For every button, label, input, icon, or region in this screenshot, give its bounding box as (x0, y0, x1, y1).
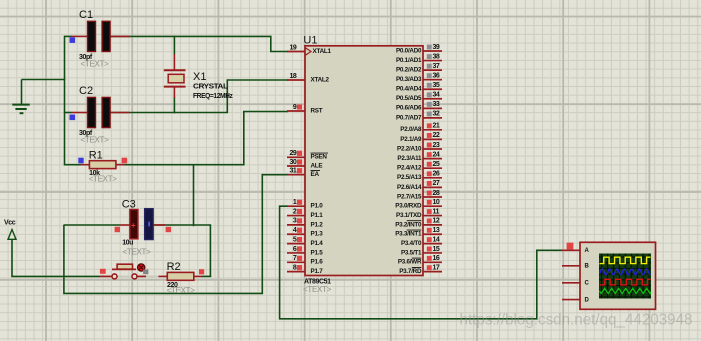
svg-text:33: 33 (433, 101, 440, 108)
pin 22 P2.1/A9 (400, 132, 442, 143)
wire C2 left link (65, 112, 72, 114)
svg-text:C1: C1 (79, 9, 93, 21)
svg-text:P3.5/T1: P3.5/T1 (401, 249, 422, 256)
wire C1 to XTAL1 (110, 36, 289, 51)
pin 5 P1.4 (287, 236, 323, 247)
svg-text:P2.3/A11: P2.3/A11 (397, 155, 422, 162)
svg-text:<TEXT>: <TEXT> (123, 248, 152, 257)
svg-text:XTAL2: XTAL2 (311, 76, 330, 83)
svg-text:P1.2: P1.2 (311, 221, 324, 228)
svg-text:RST: RST (311, 107, 323, 114)
svg-text:31: 31 (290, 168, 297, 175)
capacitor C2 (72, 85, 130, 144)
op-amp U1 body (AT89C51 MCU) (303, 35, 423, 295)
svg-text:30: 30 (290, 159, 297, 166)
pin 1 P1.0 (287, 199, 323, 210)
node R2 right marker (199, 269, 204, 274)
svg-text:FREQ=12MHz: FREQ=12MHz (193, 93, 233, 100)
pin 4 P1.3 (287, 227, 323, 238)
oscilloscope screen (599, 254, 651, 299)
svg-text:P1.0: P1.0 (311, 203, 324, 210)
svg-text:36: 36 (433, 72, 440, 79)
svg-text:3: 3 (293, 218, 297, 225)
svg-text:12: 12 (433, 218, 440, 225)
svg-text:27: 27 (433, 180, 440, 187)
svg-text:<TEXT>: <TEXT> (303, 285, 332, 294)
svg-text:18: 18 (290, 73, 297, 80)
svg-text:P0.5/AD5: P0.5/AD5 (396, 95, 422, 102)
svg-text:X1: X1 (193, 71, 206, 83)
svg-text:P3.3/INT1: P3.3/INT1 (395, 231, 422, 238)
pin scope D (562, 299, 580, 301)
pin 38 P0.1/AD1 (396, 53, 442, 64)
svg-text:C2: C2 (79, 85, 93, 97)
svg-text:P2.2/A10: P2.2/A10 (397, 145, 422, 152)
pin 24 P2.3/A11 (397, 151, 442, 162)
svg-text:7: 7 (293, 255, 297, 262)
svg-text:13: 13 (433, 227, 440, 234)
svg-text:C: C (585, 281, 590, 287)
pin 7 P1.6 (287, 255, 323, 266)
wire C3 right down to R2 (154, 225, 211, 277)
pin 34 P0.5/AD5 (396, 92, 442, 103)
pin 16 P3.6/WR (398, 255, 442, 266)
pin 19 XTAL1 (287, 44, 331, 55)
waveform D green triangle (600, 288, 651, 293)
pin 23 P2.2/A10 (397, 142, 442, 153)
waveform A yellow square (600, 257, 651, 263)
svg-text:<TEXT>: <TEXT> (81, 59, 110, 68)
wire R1 to RST (116, 112, 288, 165)
svg-text:1: 1 (293, 199, 297, 206)
pin 2 P1.1 (287, 208, 323, 219)
wire P1.0 to scope A (280, 206, 562, 319)
node R1 right marker (122, 158, 128, 164)
pin 8 P1.7 (287, 264, 323, 275)
pin 6 P1.5 (287, 246, 323, 257)
svg-text:17: 17 (433, 264, 440, 271)
svg-text:R2: R2 (167, 261, 181, 273)
svg-text:B: B (585, 264, 590, 270)
svg-text:P1.5: P1.5 (311, 249, 324, 256)
pin 14 P3.4/T0 (401, 236, 442, 247)
svg-text:EA: EA (311, 171, 320, 178)
wire crystal bottom link (173, 97, 175, 113)
svg-text:Vcc: Vcc (4, 220, 16, 227)
svg-text:P2.6/A14: P2.6/A14 (397, 184, 422, 191)
svg-text:ALE: ALE (311, 162, 323, 169)
svg-text:+: + (131, 220, 136, 230)
svg-text:21: 21 (433, 123, 440, 130)
svg-text:15: 15 (433, 246, 440, 253)
pin 27 P2.6/A14 (397, 180, 442, 191)
svg-text:8: 8 (293, 264, 297, 271)
node scope A marker (567, 243, 574, 250)
svg-text:P0.2/AD2: P0.2/AD2 (396, 67, 422, 74)
svg-text:R1: R1 (89, 149, 103, 161)
capacitor C1 (72, 9, 130, 68)
svg-text:24: 24 (433, 151, 440, 158)
svg-text:4: 4 (293, 227, 297, 234)
svg-text:10u: 10u (122, 239, 133, 246)
wire EA link (262, 174, 288, 176)
svg-text:P2.4/A12: P2.4/A12 (397, 165, 422, 172)
svg-text:P0.3/AD3: P0.3/AD3 (396, 76, 422, 83)
pin 12 P3.2/INT0 (395, 218, 442, 229)
svg-text:P2.1/A9: P2.1/A9 (400, 136, 422, 143)
svg-text:<TEXT>: <TEXT> (167, 286, 196, 295)
pin 36 P0.3/AD3 (396, 72, 442, 83)
pin 35 P0.4/AD4 (396, 82, 442, 93)
wire R2 right link (202, 275, 212, 277)
svg-text:P0.0/AD0: P0.0/AD0 (396, 47, 422, 54)
pin 25 P2.4/A12 (397, 161, 442, 172)
svg-text:https://blog.csdn.net/qq_44203: https://blog.csdn.net/qq_44203948 (460, 311, 693, 328)
svg-text:P3.4/T0: P3.4/T0 (401, 240, 422, 247)
svg-text:P0.1/AD1: P0.1/AD1 (396, 57, 422, 64)
pin scope C (562, 282, 580, 284)
ground (12, 105, 29, 114)
wire Vcc to button (12, 239, 100, 276)
svg-text:11: 11 (433, 208, 440, 215)
node C3 right marker (166, 227, 171, 232)
node C1 left marker (70, 37, 76, 43)
node R1 left marker (78, 158, 83, 164)
svg-text:U1: U1 (303, 35, 317, 47)
pin scope A (562, 249, 580, 251)
wire ground branch (22, 79, 66, 81)
svg-text:26: 26 (433, 171, 440, 178)
svg-text:P3.6/WR: P3.6/WR (398, 259, 422, 266)
svg-text:P1.7: P1.7 (311, 268, 324, 275)
wire C3 left wire (64, 224, 120, 226)
waveform C red square (600, 279, 651, 285)
svg-text:P1.6: P1.6 (311, 259, 324, 266)
svg-text:28: 28 (433, 190, 440, 197)
pin 37 P0.2/AD2 (396, 63, 442, 74)
pin 10 P3.0/RXD (395, 199, 442, 210)
svg-text:5: 5 (293, 236, 297, 243)
resistor R2 (159, 261, 203, 295)
pin 21 P2.0/A8 (400, 123, 442, 134)
pin 30 ALE (287, 159, 322, 170)
svg-text:P1.4: P1.4 (311, 240, 324, 247)
pin scope B (562, 265, 580, 267)
pin 26 P2.5/A13 (397, 171, 442, 182)
svg-text:22: 22 (433, 132, 440, 139)
node C3 left marker (115, 227, 120, 232)
svg-text:39: 39 (433, 44, 440, 51)
svg-text:P3.7/RD: P3.7/RD (399, 268, 422, 275)
svg-text:A: A (585, 248, 590, 254)
crystal X1 (164, 54, 234, 100)
pin 39 P0.0/AD0 (396, 44, 442, 55)
pin 33 P0.6/AD6 (396, 101, 442, 112)
svg-text:P3.2/INT0: P3.2/INT0 (395, 221, 422, 228)
svg-text:9: 9 (293, 104, 297, 111)
svg-text:37: 37 (433, 63, 440, 70)
pin 32 P0.7/AD7 (396, 111, 442, 122)
svg-text:34: 34 (433, 92, 440, 99)
svg-text:P1.1: P1.1 (311, 212, 324, 219)
svg-text:P0.6/AD6: P0.6/AD6 (396, 105, 422, 112)
svg-text:D: D (585, 297, 590, 303)
svg-text:C3: C3 (122, 198, 136, 210)
wire C1 left link (65, 35, 72, 37)
svg-text:P2.0/A8: P2.0/A8 (400, 126, 422, 133)
pin 31 EA (287, 168, 320, 179)
svg-text:29: 29 (290, 150, 297, 157)
wire crystal top link (173, 36, 175, 54)
svg-text:P2.7/A15: P2.7/A15 (397, 193, 422, 200)
svg-text:19: 19 (290, 44, 297, 51)
pin 18 XTAL2 (287, 73, 329, 84)
pin 3 P1.2 (287, 218, 323, 229)
node C2 left marker (70, 115, 76, 121)
pin 29 PSEN (287, 150, 328, 161)
svg-text:32: 32 (433, 111, 440, 118)
node button left marker (100, 269, 106, 274)
svg-text:<TEXT>: <TEXT> (89, 174, 118, 183)
svg-text:25: 25 (433, 161, 440, 168)
wire R1 left link (65, 164, 84, 166)
svg-text:10: 10 (433, 199, 440, 206)
svg-text:P3.1/TXD: P3.1/TXD (396, 212, 422, 219)
svg-text:P1.3: P1.3 (311, 231, 324, 238)
svg-text:P2.5/A13: P2.5/A13 (397, 174, 422, 181)
capacitor C3 (120, 198, 165, 256)
svg-text:PSEN: PSEN (311, 154, 328, 161)
wire left rail C1/C2/R1 (64, 36, 66, 166)
pin 11 P3.1/TXD (396, 208, 442, 219)
wire ground stem (21, 80, 23, 105)
resistor R1 (81, 149, 125, 183)
svg-text:CRYSTAL: CRYSTAL (193, 84, 229, 91)
svg-text:P0.4/AD4: P0.4/AD4 (396, 86, 422, 93)
svg-text:XTAL1: XTAL1 (313, 48, 332, 55)
svg-text:P0.7/AD7: P0.7/AD7 (396, 114, 422, 121)
wire R1/C3 branch (193, 165, 195, 227)
svg-text:23: 23 (433, 142, 440, 149)
pin 13 P3.3/INT1 (395, 227, 442, 238)
svg-text:P3.0/RXD: P3.0/RXD (395, 203, 422, 210)
svg-text:16: 16 (433, 255, 440, 262)
wire C3-left loop to EA (64, 174, 262, 294)
svg-text:35: 35 (433, 82, 440, 89)
oscilloscope body (562, 242, 656, 309)
pin 28 P2.7/A15 (397, 190, 442, 201)
waveform B blue sine (600, 269, 651, 275)
pin 15 P3.5/T1 (401, 246, 442, 257)
svg-text:14: 14 (433, 236, 440, 243)
power Vcc (4, 220, 16, 240)
svg-text:2: 2 (293, 208, 297, 215)
svg-text:6: 6 (293, 246, 297, 253)
push button switch (100, 264, 159, 279)
wire C2/crystal to XTAL2 (110, 80, 289, 113)
pin 17 P3.7/RD (399, 264, 442, 275)
svg-text:<TEXT>: <TEXT> (81, 135, 110, 144)
svg-text:38: 38 (433, 53, 440, 60)
pin 9 RST (287, 104, 323, 115)
